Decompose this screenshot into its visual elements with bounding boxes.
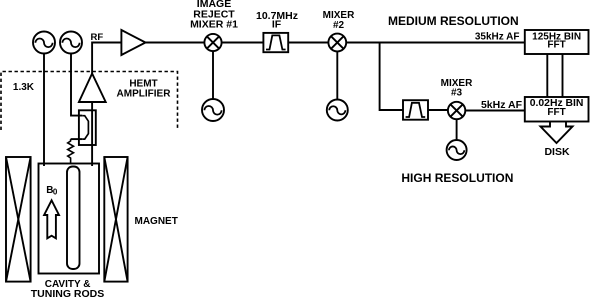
svg-text:DISK: DISK [544, 146, 570, 158]
svg-text:#2: #2 [333, 20, 345, 31]
label MIXER #3 [441, 78, 473, 99]
wire oscillator-left to cavity [43, 53, 45, 166]
svg-text:FFT: FFT [547, 107, 565, 118]
mixer U2 (MIXER #2) [328, 34, 346, 52]
magnet coil left [6, 157, 31, 282]
oscillator LO3 [447, 140, 467, 160]
wire RF corner to main amplifier [92, 43, 121, 74]
dashed cryostat box 1.3K [1, 72, 178, 131]
wire FFT to FFT right [562, 54, 564, 97]
svg-text:TUNING RODS: TUNING RODS [31, 288, 105, 298]
label HEMT AMPLIFIER [117, 79, 172, 100]
svg-text:5kHz AF: 5kHz AF [481, 99, 523, 111]
label B0 [46, 185, 58, 197]
svg-text:MIXER #1: MIXER #1 [190, 19, 238, 31]
mixer U1 (IMAGE REJECT MIXER #1) [204, 34, 221, 51]
oscillator (tuning-rod drive) left [33, 32, 55, 54]
wire transistor to bias resistor [71, 138, 83, 140]
wire mixer #2 to 125Hz FFT [346, 42, 525, 44]
oscillator LO2 [327, 100, 348, 121]
svg-text:1.3K: 1.3K [13, 82, 35, 93]
cavity box [39, 164, 100, 274]
svg-text:RF: RF [91, 32, 104, 43]
wire mixer #1 to IF filter [222, 42, 264, 44]
oscillator (HEMT bias drive) second [60, 32, 82, 54]
svg-text:AMPLIFIER: AMPLIFIER [117, 88, 172, 99]
arrow to disk [541, 122, 573, 144]
wire mixer #3 to LO3 [456, 119, 458, 140]
svg-text:HIGH RESOLUTION: HIGH RESOLUTION [401, 171, 513, 185]
wire mixer #3 to 0.02Hz FFT [465, 110, 525, 112]
svg-text:MAGNET: MAGNET [135, 216, 178, 227]
wire HEMT amp down through transistor to cavity [91, 102, 93, 166]
label IMAGE REJECT MIXER #1 [190, 0, 238, 31]
filter F2 (high resolution bandpass) [403, 100, 428, 120]
magnet coil right [104, 157, 127, 282]
amplifier (RF line amp) [121, 30, 145, 55]
oscillator LO1 [202, 99, 224, 121]
transistor Q1 (HEMT device) [79, 110, 96, 145]
wire oscillator-2 down and right to transistor gate [71, 53, 82, 116]
svg-text:35kHz AF: 35kHz AF [475, 31, 520, 42]
block 125Hz BIN FFT [525, 30, 589, 54]
arrow B0 field direction [44, 200, 59, 238]
wire filter to mixer #3 [428, 109, 448, 111]
svg-text:0: 0 [53, 188, 58, 197]
block 0.02Hz BIN FFT [525, 97, 589, 122]
filter F1 (10.7MHz IF bandpass) [263, 33, 288, 52]
svg-text:MEDIUM RESOLUTION: MEDIUM RESOLUTION [388, 14, 519, 28]
resistor R1 [68, 139, 74, 163]
wire IF filter to mixer #2 [288, 42, 328, 44]
svg-text:IF: IF [272, 19, 282, 31]
wire amp to mixer #1 [146, 42, 205, 44]
label 10.7MHz IF [256, 10, 298, 31]
tuning rod [67, 167, 80, 270]
wire mixer #1 to LO [212, 51, 214, 99]
wire FFT to FFT left [546, 54, 548, 97]
svg-text:FFT: FFT [547, 40, 565, 51]
wire mixer #2 to LO2 [336, 51, 338, 99]
label MIXER #2 [323, 10, 355, 31]
mixer U3 (MIXER #3) [448, 102, 465, 119]
wire junction down to high-resolution branch [380, 43, 403, 111]
label CAVITY & TUNING RODS [31, 279, 105, 298]
svg-text:#3: #3 [451, 88, 463, 99]
amplifier (HEMT, points up) [79, 74, 106, 103]
